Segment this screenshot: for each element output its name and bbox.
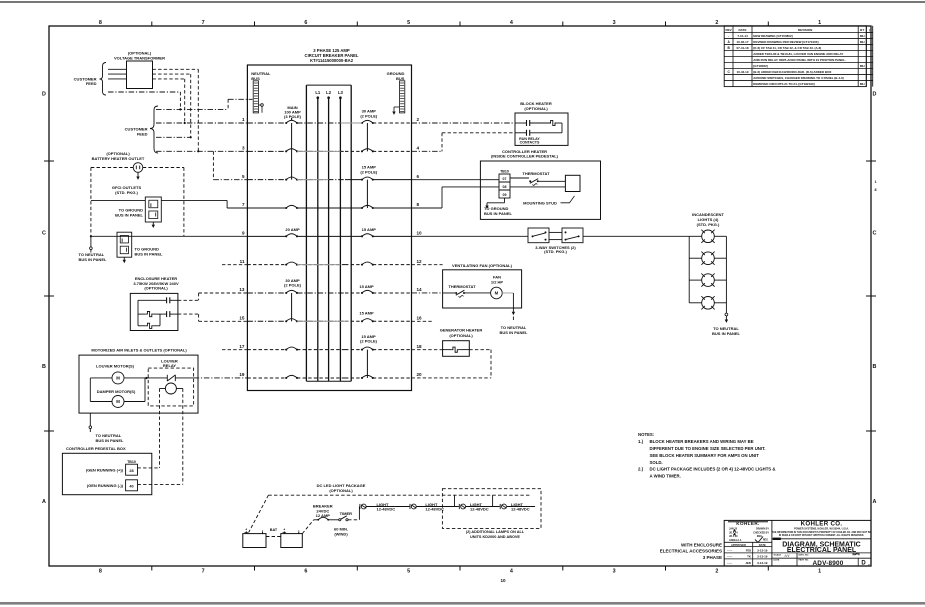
svg-text:BUS IN PANEL: BUS IN PANEL — [484, 211, 512, 216]
svg-text:(D-6) CF TAB 41, CD TAB 42, &: (D-6) CF TAB 41, CD TAB 42, & CD TAB 43.… — [753, 46, 821, 50]
svg-text:2: 2 — [715, 569, 718, 575]
svg-text:4: 4 — [417, 146, 420, 151]
svg-text:(GEN RUNNING (-)): (GEN RUNNING (-)) — [87, 483, 124, 488]
svg-text:MH: MH — [860, 82, 865, 86]
svg-text:DC LIGHT PACKAGE INCLUDES (2 O: DC LIGHT PACKAGE INCLUDES (2 OR 4) 12-48… — [650, 467, 776, 472]
svg-text:L1: L1 — [315, 90, 321, 95]
svg-text:6: 6 — [304, 20, 307, 26]
svg-text:GENERATOR HEATER: GENERATOR HEATER — [440, 328, 483, 333]
svg-text:LOUVER MOTOR(S): LOUVER MOTOR(S) — [96, 363, 135, 368]
svg-text:ADV-8900: ADV-8900 — [812, 560, 843, 567]
svg-text:40: 40 — [129, 485, 133, 489]
svg-text:13: 13 — [239, 287, 245, 292]
svg-text:-: - — [728, 34, 729, 38]
svg-text:(INSIDE CONTROLLER PEDESTAL): (INSIDE CONTROLLER PEDESTAL) — [491, 154, 559, 159]
svg-text:+: + — [283, 528, 285, 532]
svg-text:BLOCK HEATER BREAKERS AND WIRI: BLOCK HEATER BREAKERS AND WIRING MAY BE — [650, 439, 754, 444]
svg-text:BUS IN PANEL: BUS IN PANEL — [115, 212, 143, 217]
svg-text:4: 4 — [510, 20, 513, 26]
svg-text:CONTROLLER PEDESTAL BOX: CONTROLLER PEDESTAL BOX — [66, 446, 126, 451]
svg-text:BUS: BUS — [396, 76, 405, 81]
svg-text:C: C — [873, 231, 877, 237]
svg-text:~~~: ~~~ — [727, 549, 733, 553]
svg-text:09: 09 — [503, 193, 507, 197]
svg-text:3-13-19: 3-13-19 — [757, 561, 768, 565]
svg-text:07: 07 — [503, 177, 507, 181]
svg-text:7-10-14: 7-10-14 — [737, 34, 748, 38]
svg-text:AROUND SWITCHES, CHANGED DRAWI: AROUND SWITCHES, CHANGED DRAWING TO 3 PA… — [753, 76, 844, 80]
svg-text:6: 6 — [304, 569, 307, 575]
svg-text:12: 12 — [417, 259, 423, 264]
svg-text:A WIND TIMER.: A WIND TIMER. — [650, 474, 681, 479]
svg-text:17: 17 — [239, 344, 245, 349]
svg-text:DWG. NO.: DWG. NO. — [799, 554, 810, 556]
svg-text:ANGELA A: ANGELA A — [729, 539, 742, 542]
svg-text:12-48VDC: 12-48VDC — [470, 507, 489, 512]
svg-text:5: 5 — [242, 174, 245, 179]
svg-text:MH: MH — [860, 40, 865, 44]
svg-text:BUS IN PANEL: BUS IN PANEL — [500, 330, 528, 335]
svg-text:M: M — [495, 291, 499, 296]
svg-text:1.): 1.) — [638, 439, 644, 444]
svg-text:(STD. PKG.): (STD. PKG.) — [544, 249, 567, 254]
svg-text:B: B — [873, 364, 877, 370]
svg-text:14: 14 — [417, 287, 423, 292]
svg-text:19: 19 — [239, 372, 245, 377]
svg-text:L2: L2 — [326, 90, 332, 95]
svg-text:07-41-18: 07-41-18 — [736, 46, 748, 50]
svg-text:ENG: ENG — [757, 535, 762, 538]
svg-text:(3 POLE): (3 POLE) — [284, 114, 302, 119]
svg-text:1: 1 — [242, 117, 245, 122]
svg-text:5: 5 — [407, 569, 410, 575]
svg-text:REMOVED CIRCUITS 21 TO 24. [G: REMOVED CIRCUITS 21 TO 24. [GT182190] — [753, 82, 814, 86]
svg-text:(2) ADDITIONAL LAMPS ON ALL: (2) ADDITIONAL LAMPS ON ALL — [466, 530, 525, 534]
svg-text:3 PHASE: 3 PHASE — [703, 555, 722, 560]
svg-text:D: D — [873, 92, 877, 98]
svg-text:(2 POLE): (2 POLE) — [360, 169, 378, 174]
svg-text:~~~: ~~~ — [727, 561, 733, 565]
svg-text:10-43-19: 10-43-19 — [736, 70, 748, 74]
svg-text:(STD. PKG.): (STD. PKG.) — [115, 190, 138, 195]
svg-text:VOLTAGE TRANSFORMER: VOLTAGE TRANSFORMER — [114, 55, 165, 60]
svg-text:3: 3 — [613, 569, 616, 575]
svg-text:REV: REV — [726, 28, 732, 32]
svg-text:SEE BLOCK HEATER SUMMARY FOR A: SEE BLOCK HEATER SUMMARY FOR AMPS ON UNI… — [650, 453, 760, 458]
svg-text:JD A 09: JD A 09 — [729, 535, 738, 538]
svg-text:BUS IN PANEL: BUS IN PANEL — [96, 438, 124, 443]
svg-text:2: 2 — [715, 20, 718, 26]
svg-text:(OPTIONAL): (OPTIONAL) — [144, 286, 168, 291]
svg-text:M: M — [116, 376, 120, 381]
svg-text:10-02-17: 10-02-17 — [736, 40, 748, 44]
svg-text:3: 3 — [242, 146, 245, 151]
svg-text:4: 4 — [510, 569, 513, 575]
svg-text:DIFFERENT DUE TO ENGINE SIZE S: DIFFERENT DUE TO ENGINE SIZE SELECTED PE… — [650, 446, 766, 451]
svg-text:(B-6) ADDED KB#41412000000-RAD: (B-6) ADDED KB#41412000000-RAD. (D-6) AD… — [753, 70, 831, 74]
svg-text:8: 8 — [99, 20, 102, 26]
svg-text:28: 28 — [129, 469, 133, 473]
svg-text:DRAWN BY: DRAWN BY — [756, 528, 769, 531]
svg-text:9: 9 — [242, 231, 245, 236]
svg-text:BUS: BUS — [251, 76, 260, 81]
svg-text:ADDED TB10-80 & TB10-81, LOUVE: ADDED TB10-80 & TB10-81, LOUVER VAN ENGI… — [753, 52, 843, 56]
svg-text:10: 10 — [500, 578, 506, 583]
svg-text:FEED: FEED — [86, 81, 97, 86]
svg-text:(2 POLE): (2 POLE) — [360, 339, 378, 344]
svg-text:(2 POLE): (2 POLE) — [360, 114, 378, 119]
svg-text:RELAY: RELAY — [163, 363, 177, 368]
svg-text:NEW DRAWING [GT150802]: NEW DRAWING [GT150802] — [753, 34, 792, 38]
svg-text:8: 8 — [99, 569, 102, 575]
svg-text:REVISED DRAWING PER REVIEW [G: REVISED DRAWING PER REVIEW [GT171000] — [753, 40, 818, 44]
svg-text:DATE: DATE — [774, 559, 780, 562]
svg-text:15 AMP: 15 AMP — [359, 284, 374, 289]
svg-text:THE INFORMATION IN THIS DOCUME: THE INFORMATION IN THIS DOCUMENT IS PROP… — [772, 531, 872, 534]
svg-text:CHECKED BY: CHECKED BY — [753, 531, 769, 534]
svg-text:DATE: DATE — [739, 28, 747, 32]
svg-text:10: 10 — [417, 231, 423, 236]
svg-text:KT#11415000000-BA2: KT#11415000000-BA2 — [310, 58, 354, 63]
svg-text:12-48VDC: 12-48VDC — [377, 507, 396, 512]
svg-text:7: 7 — [202, 569, 205, 575]
svg-text:[GT18002]: [GT18002] — [753, 64, 768, 68]
svg-text:16: 16 — [417, 316, 423, 321]
svg-text:BATTERY HEATER OUTLET: BATTERY HEATER OUTLET — [92, 156, 145, 161]
svg-text:MOUNTING STUD: MOUNTING STUD — [523, 200, 557, 205]
svg-text:15 AMP: 15 AMP — [362, 227, 377, 232]
svg-text:B: B — [42, 364, 46, 370]
svg-text:~~~: ~~~ — [727, 555, 733, 559]
svg-text:REG: REG — [763, 539, 768, 542]
svg-text:D: D — [42, 92, 46, 98]
svg-text:8: 8 — [417, 202, 420, 207]
svg-text:+: + — [245, 528, 247, 532]
svg-text:VENTILATING FAN (OPTIONAL): VENTILATING FAN (OPTIONAL) — [452, 263, 513, 268]
svg-text:7: 7 — [242, 202, 245, 207]
svg-text:BUS IN PANEL: BUS IN PANEL — [79, 257, 107, 262]
svg-text:THERMOSTAT: THERMOSTAT — [522, 171, 550, 176]
svg-text:JAN 25: JAN 25 — [729, 528, 738, 531]
svg-text:08: 08 — [503, 185, 507, 189]
svg-text:BUS IN PANEL: BUS IN PANEL — [712, 331, 740, 336]
svg-text:8: 8 — [875, 188, 877, 192]
svg-text:MH: MH — [860, 34, 865, 38]
svg-text:PART NO.: PART NO. — [799, 559, 810, 562]
svg-text:(2 POLE): (2 POLE) — [284, 283, 302, 288]
svg-text:MH: MH — [860, 64, 865, 68]
svg-text:(STD. PKG.): (STD. PKG.) — [697, 222, 720, 227]
svg-text:TB10: TB10 — [500, 169, 509, 173]
svg-text:12-48VDC: 12-48VDC — [425, 507, 444, 512]
svg-text:D: D — [861, 561, 866, 567]
svg-text:1: 1 — [818, 569, 821, 575]
svg-text:NOTES:: NOTES: — [638, 432, 655, 437]
svg-text:CONTACTS: CONTACTS — [520, 141, 540, 145]
svg-text:FEED: FEED — [137, 132, 148, 137]
svg-text:12-48VDC: 12-48VDC — [511, 507, 530, 512]
svg-text:(WIND): (WIND) — [334, 531, 348, 536]
svg-text:DATE: DATE — [759, 543, 766, 547]
svg-text:L3: L3 — [338, 90, 344, 95]
svg-text:JD A 04: JD A 04 — [729, 531, 738, 534]
svg-text:TB10: TB10 — [127, 460, 136, 464]
svg-text:A: A — [42, 499, 46, 505]
svg-text:15 AMP: 15 AMP — [359, 310, 374, 315]
svg-text:5: 5 — [407, 20, 410, 26]
svg-text:): ) — [869, 28, 870, 32]
svg-text:DAMPER MOTOR(S): DAMPER MOTOR(S) — [97, 389, 136, 394]
svg-text:/ / /: / / / — [785, 554, 790, 558]
svg-text:11: 11 — [240, 259, 245, 264]
svg-text:1/2 HP: 1/2 HP — [491, 279, 504, 284]
svg-text:UNITS KD2000 AND ABOVE: UNITS KD2000 AND ABOVE — [470, 535, 520, 539]
svg-text:(OPTIONAL): (OPTIONAL) — [524, 106, 548, 111]
svg-text:(OPTIONAL): (OPTIONAL) — [329, 488, 353, 493]
svg-text:FE8: FE8 — [746, 549, 752, 553]
svg-text:MOTORIZED AIR INLETS & OUTLETS: MOTORIZED AIR INLETS & OUTLETS (OPTIONAL… — [91, 348, 187, 353]
svg-text:REVISION: REVISION — [798, 28, 812, 32]
svg-text:3-13-19: 3-13-19 — [757, 549, 768, 553]
svg-text:AND RUN RELAY. REPLACED PANEL: AND RUN RELAY. REPLACED PANEL WITH 24 PO… — [753, 58, 846, 62]
svg-text:THERMOSTAT: THERMOSTAT — [448, 284, 476, 289]
svg-text:SOLD.: SOLD. — [650, 460, 663, 465]
svg-text:7: 7 — [202, 20, 205, 26]
svg-text:APPROVED: APPROVED — [731, 543, 746, 547]
svg-text:JED: JED — [745, 561, 751, 565]
svg-text:A: A — [873, 499, 877, 505]
svg-text:C: C — [42, 231, 46, 237]
svg-text:6: 6 — [417, 174, 420, 179]
svg-text:(GEN RUNNING (+)): (GEN RUNNING (+)) — [86, 468, 124, 473]
svg-text:15: 15 — [239, 316, 245, 321]
svg-text:TIMER: TIMER — [340, 511, 353, 516]
svg-text:M: M — [116, 399, 120, 404]
svg-text:(OPTIONAL): (OPTIONAL) — [449, 333, 473, 338]
svg-text:20 AMP: 20 AMP — [285, 227, 300, 232]
svg-text:BUS IN PANEL: BUS IN PANEL — [135, 251, 163, 256]
svg-text:BY: BY — [860, 28, 864, 32]
svg-text:18: 18 — [417, 344, 423, 349]
svg-text:3-13-19: 3-13-19 — [757, 555, 768, 559]
svg-text:SCALE: SCALE — [774, 553, 782, 556]
svg-text:WITH ENCLOSURE: WITH ENCLOSURE — [681, 542, 722, 547]
svg-text:2.): 2.) — [638, 467, 644, 472]
svg-text:1: 1 — [818, 20, 821, 26]
svg-text:2: 2 — [417, 117, 420, 122]
svg-text:IN WHOLE OR PART WITHOUT WRITT: IN WHOLE OR PART WITHOUT WRITTEN CONSENT… — [779, 534, 865, 537]
svg-text:BAT: BAT — [270, 528, 278, 532]
svg-text:20: 20 — [417, 372, 423, 377]
svg-text:1: 1 — [875, 180, 877, 184]
svg-text:30 AMP: 30 AMP — [362, 108, 377, 113]
svg-text:ELECTRICAL ACCESSORIES: ELECTRICAL ACCESSORIES — [660, 549, 722, 554]
svg-text:3: 3 — [613, 20, 616, 26]
svg-text:POWER SYSTEMS, KOHLER, WI: POWER SYSTEMS, KOHLER, WI 53044, U.S.A. — [794, 527, 849, 530]
